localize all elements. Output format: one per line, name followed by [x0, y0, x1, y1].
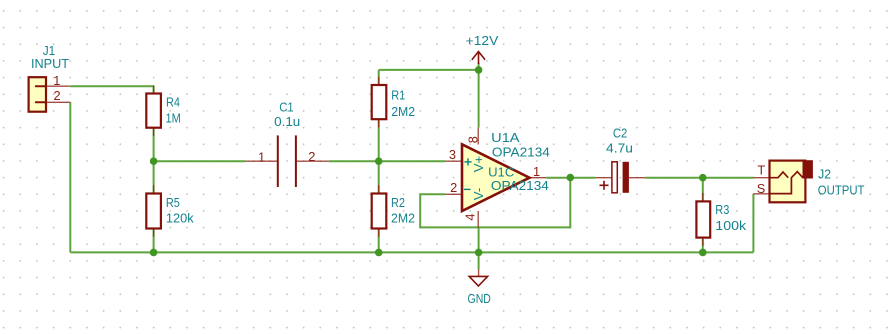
- svg-text:8: 8: [466, 136, 481, 143]
- svg-text:R4: R4: [166, 95, 180, 110]
- svg-text:OPA2134: OPA2134: [492, 145, 550, 160]
- svg-text:U1A: U1A: [491, 130, 520, 145]
- svg-text:C1: C1: [279, 99, 293, 114]
- svg-text:J2: J2: [818, 167, 831, 182]
- svg-text:+12V: +12V: [466, 33, 499, 48]
- svg-text:R5: R5: [166, 195, 180, 210]
- svg-text:T: T: [757, 162, 765, 177]
- svg-text:V+: V+: [471, 156, 486, 173]
- svg-text:GND: GND: [468, 291, 491, 306]
- svg-text:C2: C2: [613, 126, 627, 141]
- svg-text:V-: V-: [471, 188, 486, 200]
- svg-text:1: 1: [533, 164, 540, 179]
- svg-text:OUTPUT: OUTPUT: [818, 182, 865, 197]
- svg-text:4.7u: 4.7u: [606, 140, 633, 155]
- svg-text:100k: 100k: [715, 218, 746, 233]
- svg-text:OPA2134: OPA2134: [491, 178, 549, 193]
- svg-text:INPUT: INPUT: [31, 56, 69, 71]
- svg-text:0.1u: 0.1u: [274, 114, 300, 129]
- svg-text:1: 1: [258, 150, 265, 165]
- svg-text:R3: R3: [715, 202, 729, 217]
- svg-text:2: 2: [308, 149, 315, 164]
- svg-text:3: 3: [449, 147, 456, 162]
- svg-text:S: S: [757, 181, 766, 196]
- svg-text:4: 4: [463, 213, 478, 220]
- svg-text:1: 1: [53, 73, 60, 88]
- svg-text:2: 2: [53, 88, 60, 103]
- svg-text:120k: 120k: [166, 210, 194, 225]
- svg-text:2M2: 2M2: [391, 210, 415, 225]
- svg-text:2: 2: [450, 180, 457, 195]
- svg-text:1M: 1M: [166, 110, 181, 125]
- svg-text:R2: R2: [391, 195, 405, 210]
- svg-text:R1: R1: [391, 87, 405, 102]
- svg-text:2M2: 2M2: [391, 104, 415, 119]
